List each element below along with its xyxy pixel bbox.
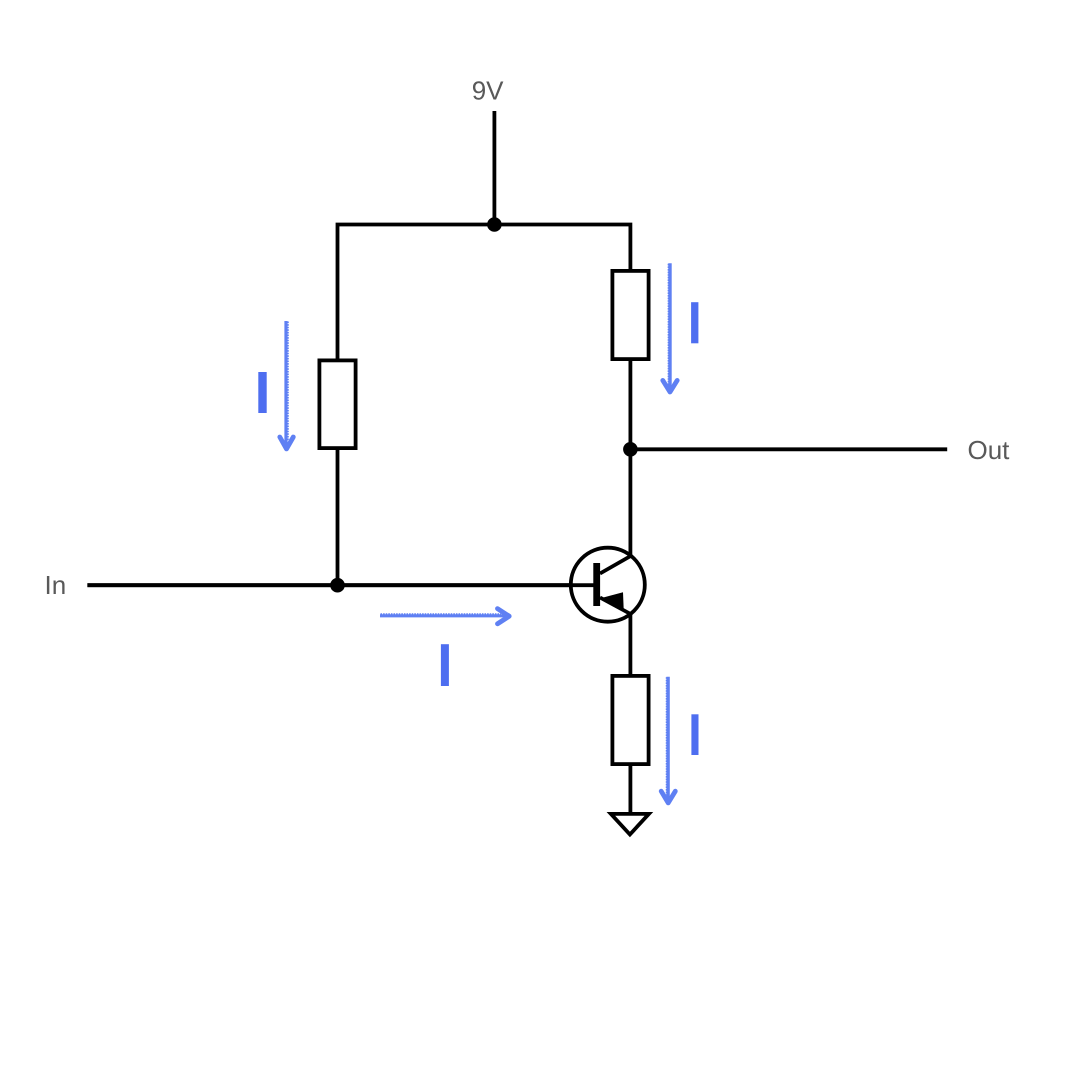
svg-text:In: In	[45, 570, 67, 600]
svg-text:9V: 9V	[472, 76, 504, 106]
svg-text:Out: Out	[968, 435, 1011, 465]
